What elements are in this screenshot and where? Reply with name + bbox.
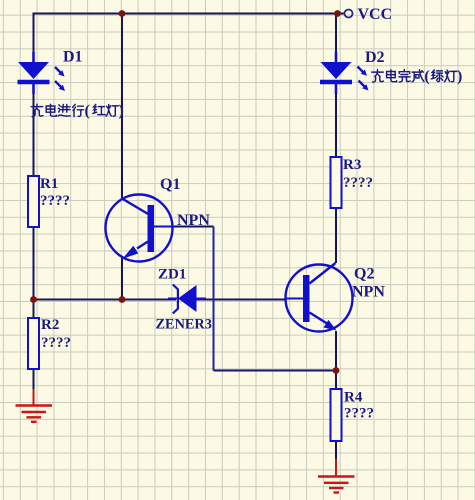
- wire mid vertical to Q1 collector: [121, 14, 123, 199]
- svg-text:Q2: Q2: [354, 266, 374, 283]
- svg-text:NPN: NPN: [352, 284, 385, 301]
- zener diode ZD1: [168, 285, 206, 314]
- resistor R2: [28, 318, 39, 369]
- wire Q1 base to corner down to Q2 emitter net: [174, 226, 214, 228]
- wire D2 to R3: [335, 94, 337, 157]
- svg-text:D2: D2: [365, 49, 385, 66]
- wire left rail upper (VCC to D1): [33, 13, 35, 53]
- wire junction to R4: [335, 371, 337, 390]
- label D1 chinese charging-in-progress (red lamp): [31, 103, 124, 120]
- svg-text:ZD1: ZD1: [158, 267, 186, 283]
- junction dot top mid: [119, 10, 126, 17]
- wire R2 to ground: [33, 369, 35, 389]
- svg-text:R1: R1: [40, 176, 58, 192]
- wire node A to R2: [33, 300, 35, 319]
- resistor R3: [331, 157, 342, 208]
- svg-text:): ): [119, 103, 124, 120]
- label D2 chinese charging-complete (green lamp): [372, 68, 463, 85]
- svg-text:Q1: Q1: [160, 176, 180, 193]
- svg-text:ZENER3: ZENER3: [156, 317, 212, 333]
- resistor R4: [331, 389, 342, 441]
- wire right rail VCC to D2: [335, 13, 337, 53]
- wire D1 to R1: [33, 94, 35, 176]
- wire Q1 emitter down: [121, 258, 123, 300]
- wire R1 to node A: [33, 227, 35, 300]
- svg-text:????: ????: [40, 193, 70, 209]
- transistor Q2: [286, 263, 353, 332]
- junction node A mid: [119, 296, 126, 303]
- junction dot top VCC: [334, 10, 341, 17]
- svg-text:D1: D1: [63, 49, 83, 66]
- svg-text:R4: R4: [344, 390, 363, 406]
- LED D1: [18, 52, 66, 94]
- svg-text:R2: R2: [41, 317, 59, 333]
- svg-text:NPN: NPN: [177, 212, 210, 229]
- wire top rail VCC net: [34, 13, 345, 15]
- svg-text:): ): [457, 68, 462, 85]
- svg-text:VCC: VCC: [358, 6, 393, 23]
- junction dot Q2 emitter R4: [333, 367, 340, 374]
- wire R3 to Q2 collector: [335, 208, 337, 263]
- LED D2: [320, 52, 369, 94]
- transistor Q1: [106, 195, 176, 262]
- junction node A left: [30, 296, 37, 303]
- power port VCC: [345, 10, 353, 18]
- svg-text:(: (: [424, 68, 429, 85]
- ground GND left: [16, 389, 53, 422]
- wire Q2 emitter to junction: [335, 331, 337, 371]
- resistor R1: [28, 176, 39, 227]
- wire ZD1 to Q2 base: [197, 299, 287, 301]
- wire horizontal mid net y=299 left of ZD1: [34, 299, 177, 301]
- svg-text:????: ????: [344, 406, 374, 422]
- wire R4 to ground: [335, 441, 337, 459]
- svg-text:R3: R3: [343, 157, 361, 173]
- ground GND right: [318, 459, 355, 493]
- svg-text:????: ????: [343, 175, 373, 191]
- svg-text:????: ????: [41, 335, 71, 351]
- svg-text:(: (: [85, 103, 90, 120]
